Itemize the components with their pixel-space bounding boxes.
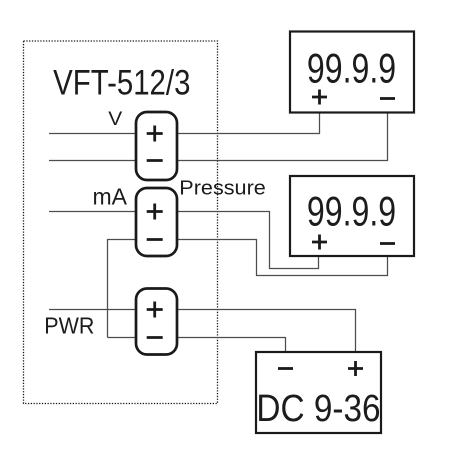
- pin + of PS1: [348, 361, 363, 376]
- terminal block J3 (PWR input): [136, 289, 177, 355]
- wire: mA+ left stub: [49, 211, 136, 213]
- power supply PS1 (DC 9-36): [256, 352, 381, 433]
- wire: PWR- to supply PS1 - terminal: [177, 338, 286, 353]
- wire: mA- to PWR- (loop): [108, 240, 137, 338]
- pin - of U2: [380, 97, 395, 100]
- wire: PWR- left stub: [108, 337, 137, 339]
- svg-text:99.9.9: 99.9.9: [307, 187, 396, 234]
- net label Pressure: [179, 177, 266, 199]
- pin + of U2: [312, 90, 327, 105]
- node label mA (current output): [93, 183, 128, 209]
- wire: V+ to display U2 + terminal: [177, 112, 320, 134]
- svg-text:PWR: PWR: [44, 313, 94, 339]
- terminal block J1 (V output): [136, 112, 177, 180]
- wire: PWR+ left stub: [49, 309, 136, 311]
- svg-text:mA: mA: [93, 183, 128, 209]
- svg-text:Pressure: Pressure: [179, 177, 266, 199]
- pin + of U3: [312, 235, 327, 250]
- display U2 (panel meter 99.9.9, voltage): [290, 32, 414, 113]
- wire: mA- to display U3 - terminal: [177, 240, 388, 276]
- terminal block J2 (mA output): [136, 188, 177, 256]
- svg-text:V: V: [108, 109, 123, 130]
- pin - of U3: [380, 242, 395, 245]
- svg-text:99.9.9: 99.9.9: [307, 44, 396, 91]
- wire: PWR+ to supply PS1 + terminal: [177, 310, 356, 353]
- node label PWR (power input): [44, 313, 94, 339]
- wire: V- left stub: [49, 160, 136, 162]
- value label DC 9-36: [256, 387, 380, 430]
- svg-text:VFT-512/3: VFT-512/3: [53, 63, 190, 102]
- wire: V+ left stub: [49, 133, 136, 135]
- wire: mA+ to display U3 + terminal: [177, 212, 319, 269]
- node label V (voltage output): [108, 109, 123, 130]
- wire: V- to display U2 - terminal: [177, 112, 388, 161]
- value label VFT-512/3: [53, 63, 190, 102]
- pin - of PS1: [278, 367, 293, 370]
- display U3 (panel meter 99.9.9, pressure/current): [290, 176, 414, 256]
- enclosure: transmitter VFT-512/3 dashed boundary: [24, 41, 218, 404]
- svg-text:DC 9-36: DC 9-36: [256, 387, 380, 430]
